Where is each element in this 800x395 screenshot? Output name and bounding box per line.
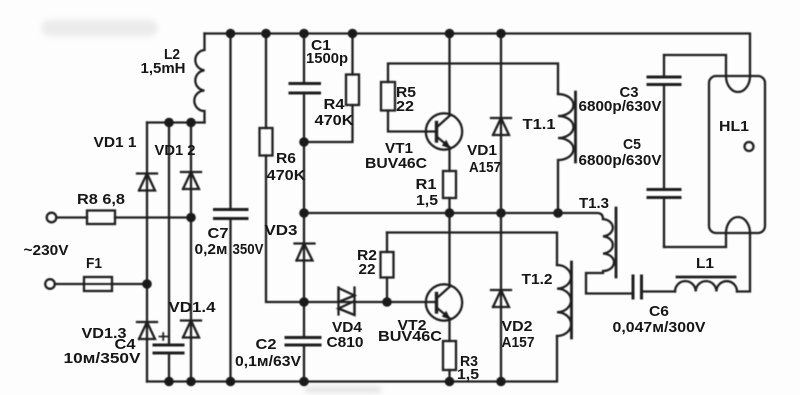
diode VD3 — [295, 244, 315, 261]
svg-text:10м/350V: 10м/350V — [64, 350, 141, 367]
capacitor C5 plates — [648, 190, 680, 198]
svg-text:VD1 2: VD1 2 — [155, 142, 196, 159]
svg-text:HL1: HL1 — [719, 118, 749, 135]
svg-text:C5: C5 — [623, 136, 641, 153]
C4 plus sign — [160, 333, 168, 340]
node bottom C7 — [226, 377, 236, 387]
watermark smudge bottom — [305, 386, 381, 393]
svg-text:1,5mH: 1,5mH — [141, 60, 186, 77]
node C4 top — [164, 118, 174, 128]
node F1/VD1.1 — [142, 279, 152, 289]
wire R5 top to T1.1 — [388, 64, 558, 95]
lamp HL1 bottom filament — [726, 217, 750, 233]
wire R3 bottom — [448, 370, 450, 382]
svg-text:C810: C810 — [327, 334, 364, 351]
wire input 1 — [56, 216, 87, 218]
svg-text:C2: C2 — [256, 336, 277, 353]
node bottom R3 — [445, 377, 455, 387]
diode VD1.2 — [181, 172, 201, 189]
transistor VT2 — [426, 284, 462, 320]
core T1.2 — [570, 262, 573, 338]
wire L1 to lamp pin — [737, 233, 750, 292]
svg-text:R8 6,8: R8 6,8 — [77, 191, 125, 208]
svg-text:0,1м/63V: 0,1м/63V — [235, 353, 301, 370]
wire lamp top-left pin — [664, 55, 726, 76]
svg-text:22: 22 — [396, 98, 414, 115]
svg-text:R4: R4 — [324, 96, 346, 113]
diode VD1.3 — [137, 322, 157, 339]
core L1 — [677, 276, 735, 279]
svg-text:~230V: ~230V — [24, 242, 69, 259]
svg-text:0,047м/300V: 0,047м/300V — [613, 319, 706, 336]
wire bridge leg 1 (VD1.1/VD1.3 line) — [146, 123, 148, 382]
wire C7 leg — [229, 34, 231, 382]
svg-text:1,5: 1,5 — [457, 366, 479, 383]
node VD3 bottom — [299, 297, 309, 307]
watermark smudge top-left — [42, 20, 157, 36]
svg-text:A157: A157 — [469, 159, 501, 176]
diode VD2 — [491, 290, 511, 307]
node VD3 top — [299, 208, 309, 218]
node rail C7 — [226, 29, 236, 39]
wire base drive lower (R2 to T1.2) — [387, 233, 557, 266]
lamp HL1 indicator circle — [745, 142, 754, 151]
node rail R6 — [261, 29, 271, 39]
wire VD1/VD2 leg — [500, 34, 502, 382]
resistor R3 — [443, 341, 456, 370]
node VD1.2 top — [186, 118, 196, 128]
node bottom VD2 — [496, 377, 506, 387]
resistor R2 — [381, 252, 394, 278]
wire lamp bottom-left pin — [664, 233, 726, 247]
svg-text:L1: L1 — [696, 255, 714, 272]
svg-text:1500p: 1500p — [306, 50, 348, 67]
node T1.1 bottom — [553, 208, 563, 218]
wire bottom rail — [147, 336, 557, 382]
svg-text:22: 22 — [359, 261, 376, 278]
wire R2 top — [386, 233, 388, 253]
diode VD1 — [491, 118, 511, 135]
svg-text:VD2: VD2 — [502, 318, 533, 335]
wire C6 to L1 — [642, 290, 676, 292]
wire top rail — [205, 34, 751, 77]
wire C3 C5 leg — [663, 55, 665, 247]
node rail VD1 — [496, 29, 506, 39]
svg-text:R6: R6 — [276, 150, 296, 167]
svg-text:BUV46C: BUV46C — [378, 328, 442, 345]
transformer winding T1.2 — [557, 265, 571, 336]
svg-text:350V: 350V — [233, 241, 264, 258]
svg-text:6800p/630V: 6800p/630V — [579, 98, 662, 115]
svg-text:C6: C6 — [649, 303, 669, 320]
svg-text:1,5: 1,5 — [416, 192, 438, 209]
svg-text:VD1 1: VD1 1 — [94, 134, 137, 151]
terminal input 2 — [45, 279, 55, 289]
wire R1 to node — [448, 198, 450, 213]
svg-text:VD3: VD3 — [265, 222, 298, 239]
capacitor C4 plates — [154, 345, 183, 353]
svg-text:C7: C7 — [208, 225, 229, 242]
node bottom VD1.4 — [186, 377, 196, 387]
capacitor C1 plates — [290, 84, 320, 94]
wire R8 to bridge — [115, 216, 191, 218]
wire rectifier top bus — [147, 121, 205, 123]
terminal input 1 — [47, 213, 57, 223]
wire VT1 collector — [448, 34, 450, 115]
svg-text:BUV46C: BUV46C — [365, 155, 427, 172]
wire VT1 emitter — [448, 149, 450, 172]
svg-text:6800p/630V: 6800p/630V — [579, 152, 662, 169]
node rail R4 — [348, 29, 358, 39]
diode VD1.4 — [181, 321, 201, 338]
core T1.3 — [615, 208, 618, 277]
fuse F1 — [84, 277, 112, 291]
svg-text:0,2м: 0,2м — [195, 241, 228, 258]
capacitor C7 plates — [215, 210, 248, 219]
svg-text:R1: R1 — [416, 176, 437, 193]
svg-text:T1.2: T1.2 — [522, 271, 553, 288]
lamp HL1 body — [709, 76, 765, 233]
svg-text:T1.1: T1.1 — [523, 116, 556, 133]
wire VT2 collector — [448, 213, 450, 286]
transformer winding T1.1 — [558, 94, 574, 213]
resistor R6 — [266, 34, 304, 303]
resistor R1 — [443, 171, 456, 198]
node rail C1 — [299, 29, 309, 39]
wire input 2 — [55, 283, 147, 285]
svg-text:470K: 470K — [315, 112, 354, 129]
inductor L2 — [194, 34, 204, 123]
svg-text:VD1: VD1 — [467, 142, 497, 159]
diode VD1.1 — [137, 174, 157, 191]
resistor R5 — [381, 82, 395, 111]
node R2 bottom — [382, 297, 392, 307]
wire R2 bottom — [386, 278, 388, 303]
capacitor C3 plates — [648, 77, 680, 85]
node R4/C1 junction — [299, 137, 309, 147]
node bottom C2 — [299, 377, 309, 387]
core T1.1 — [574, 92, 577, 162]
lamp HL1 top filament — [726, 76, 750, 92]
capacitor C2 plates — [286, 338, 320, 346]
resistor R8 — [87, 211, 115, 225]
transistor VT1 — [426, 113, 462, 149]
capacitor C6 plates — [633, 276, 642, 298]
node bottom C4 — [164, 377, 174, 387]
diac VD4 — [339, 288, 355, 316]
wire mid node rail — [304, 213, 603, 219]
wire C4 leg — [168, 123, 170, 382]
resistor R4 — [304, 34, 353, 143]
svg-text:470K: 470K — [267, 167, 306, 184]
svg-text:T1.3: T1.3 — [579, 195, 609, 212]
svg-text:F1: F1 — [86, 255, 102, 272]
node R1 bottom — [445, 208, 455, 218]
wire C1/VD3/C2 leg — [303, 34, 305, 382]
wire R5 bottom to VT1 base — [388, 111, 437, 132]
transformer winding T1.3 — [586, 219, 633, 294]
wire VD4 node row — [304, 301, 437, 303]
wire bridge leg 2 (VD1.2/VD1.4 line) — [190, 123, 192, 382]
node VD1 bottom — [496, 208, 506, 218]
svg-text:A157: A157 — [502, 334, 535, 351]
node R8/VD1.2 — [186, 213, 196, 223]
wire VT2 emitter — [448, 320, 450, 342]
svg-text:VD1.4: VD1.4 — [169, 299, 217, 316]
node rail VT1 — [445, 29, 455, 39]
inductor L1 — [675, 281, 737, 291]
